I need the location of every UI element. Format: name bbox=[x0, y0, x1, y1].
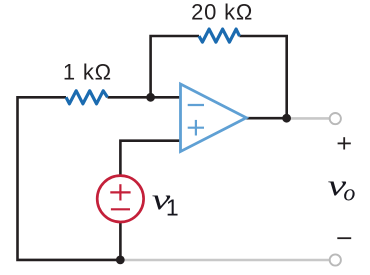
op-amp U1 triangle bbox=[181, 84, 247, 152]
op-amp noninverting input plus sign bbox=[188, 120, 204, 136]
wire v1 bottom bbox=[119, 223, 122, 260]
wire input to op-amp inverting input bbox=[108, 96, 182, 99]
voltage source v1 circle bbox=[97, 176, 143, 222]
resistor R2 20 kOhm zigzag bbox=[199, 29, 240, 42]
terminal vo+ bbox=[330, 113, 341, 124]
wire output top (gray) bbox=[287, 117, 330, 120]
output minus polarity sign bbox=[337, 237, 351, 239]
wire feedback right down to output bbox=[240, 36, 287, 118]
svg-text:1 kΩ: 1 kΩ bbox=[63, 60, 112, 85]
node bottom junction dot bbox=[116, 256, 125, 265]
voltage source plus sign bbox=[110, 184, 130, 200]
label vo bbox=[328, 169, 356, 206]
voltage source minus sign bbox=[111, 208, 130, 210]
wire op-amp output bbox=[246, 117, 287, 120]
svg-text:o: o bbox=[343, 180, 355, 206]
wire output bottom (gray) bbox=[120, 259, 329, 262]
node A junction dot (inverting input node) bbox=[146, 93, 155, 102]
wire feedback loop top bbox=[151, 36, 199, 97]
resistor R1 1 kOhm zigzag bbox=[66, 91, 108, 104]
node output junction dot bbox=[282, 114, 291, 123]
svg-text:1: 1 bbox=[166, 195, 179, 221]
terminal vo- bbox=[330, 254, 341, 265]
wire left vertical and bottom bbox=[18, 97, 121, 260]
svg-text:20 kΩ: 20 kΩ bbox=[191, 0, 253, 25]
op-amp inverting input minus sign bbox=[188, 104, 204, 106]
output plus polarity sign bbox=[338, 137, 351, 149]
label v1 bbox=[152, 183, 179, 221]
wire v1 top to op-amp noninverting input bbox=[120, 141, 181, 177]
